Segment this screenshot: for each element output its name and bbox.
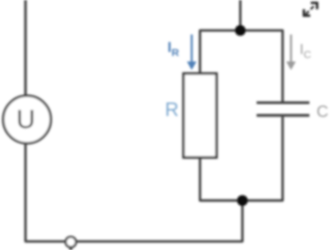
- voltage source U1 circle: [3, 96, 51, 144]
- current arrow IC (gray): [286, 35, 296, 71]
- wire: top feed to source U: [24, 0, 27, 96]
- svg-text:R: R: [165, 100, 179, 121]
- wire: source bottom to lower-left corner and along bottom to right riser: [26, 143, 243, 241]
- current arrow IR (blue): [187, 35, 197, 71]
- svg-text:IC: IC: [300, 42, 312, 61]
- wire: resistor bottom to bottom rail and up to capacitor: [200, 117, 283, 201]
- expand icon (top-right): [304, 3, 317, 16]
- capacitor C top plate: [257, 101, 310, 104]
- wire: top vertical feed into junction: [239, 0, 241, 30]
- capacitor C bottom plate: [257, 114, 310, 117]
- svg-text:C: C: [317, 103, 329, 121]
- svg-text:IR: IR: [168, 40, 180, 59]
- junction node (bottom): [237, 195, 248, 206]
- wire: top rail and drop to resistor: [200, 30, 283, 101]
- junction node (top): [235, 25, 246, 36]
- terminal stub below node: [69, 245, 72, 250]
- svg-text:U: U: [16, 104, 35, 134]
- resistor R: [184, 74, 217, 158]
- node: open terminal circle on bottom wire: [66, 237, 76, 247]
